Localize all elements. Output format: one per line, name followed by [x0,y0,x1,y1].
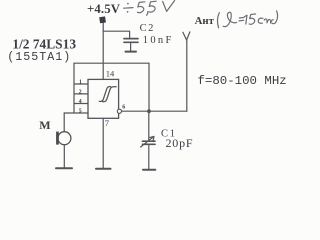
svg-text:7: 7 [105,118,109,128]
svg-text:14: 14 [106,68,115,78]
svg-text:5: 5 [79,109,82,115]
svg-text:f=80-100 MHz: f=80-100 MHz [198,74,287,88]
svg-text:Ант: Ант [195,15,215,27]
svg-text:2: 2 [79,90,82,96]
svg-text:+4.5V: +4.5V [87,2,121,16]
svg-text:1: 1 [79,80,82,86]
svg-text:10nF: 10nF [143,35,174,46]
svg-text:(155TA1): (155TA1) [7,50,71,64]
svg-text:20pF: 20pF [166,136,194,150]
svg-text:6: 6 [122,104,125,110]
svg-text:M: M [39,118,50,132]
svg-text:4: 4 [79,99,82,105]
svg-text:C2: C2 [140,23,155,34]
